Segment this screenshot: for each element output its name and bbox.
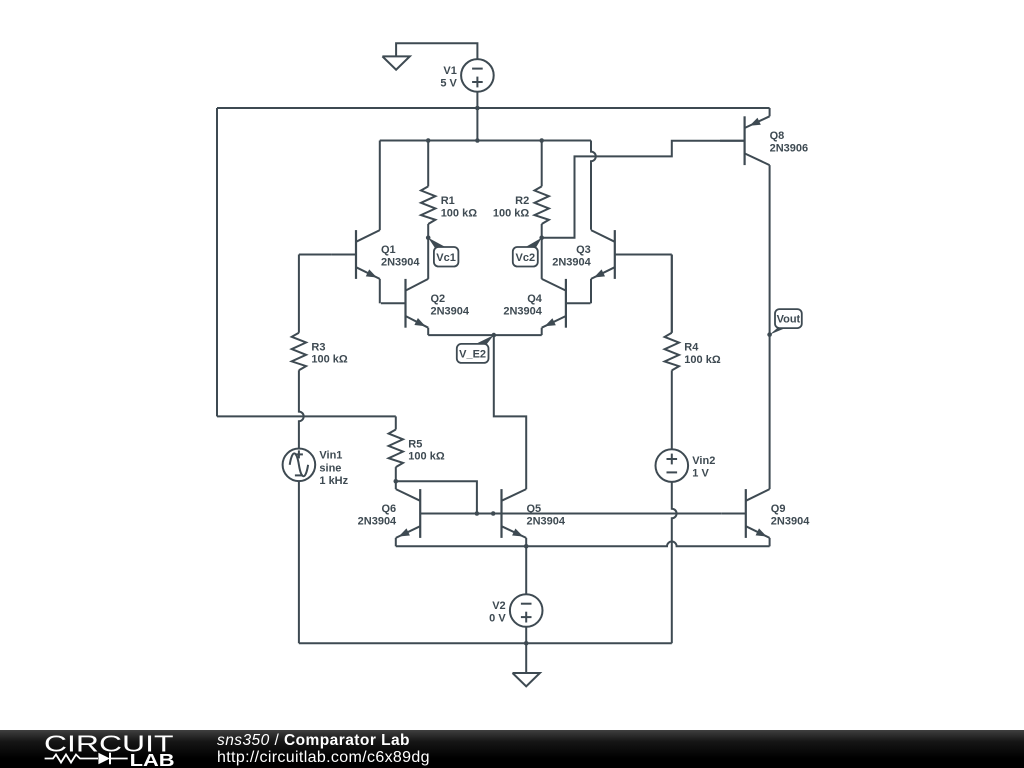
- node junction at V2 top: [524, 544, 529, 549]
- svg-text:R2: R2: [515, 195, 529, 207]
- label Q6 2N3904: [358, 503, 397, 528]
- svg-text:100 kΩ: 100 kΩ: [493, 207, 530, 219]
- node junction at Q5 base pin: [475, 511, 480, 516]
- wire (Q2/Q4 emitter rail): [428, 334, 542, 336]
- label Q3 2N3904: [552, 244, 591, 269]
- wire (R4 to Vin2): [671, 370, 673, 449]
- svg-text:R5: R5: [408, 438, 422, 450]
- node label Vout: [770, 309, 802, 335]
- svg-text:1 V: 1 V: [692, 468, 709, 480]
- svg-text:R3: R3: [311, 342, 325, 354]
- svg-text:2N3904: 2N3904: [552, 257, 591, 269]
- wire (V1 negative to ground): [396, 43, 477, 59]
- svg-text:2N3904: 2N3904: [771, 516, 810, 528]
- svg-text:Vin2: Vin2: [692, 455, 715, 467]
- svg-text:Q3: Q3: [576, 244, 591, 256]
- wire (left rail down): [216, 108, 218, 416]
- resistor R1 (100 k&#937;): [421, 141, 477, 238]
- wire (V1 plus to top rail): [476, 92, 478, 108]
- wire (base rail Q6-Q5-Q9): [420, 513, 721, 515]
- wire (bottom emitter rail, hops over Vin2 wire): [396, 542, 770, 547]
- label Q8 2N3906: [770, 130, 809, 155]
- footer title text: [217, 732, 410, 750]
- svg-text:V2: V2: [492, 600, 505, 612]
- node label V_E2: [457, 335, 494, 363]
- wire (V_E2 to Q5 collector): [494, 335, 526, 489]
- wire (Q9 emitter pin): [769, 538, 771, 546]
- wire (top rail to Q8 emitter): [769, 108, 771, 116]
- svg-text:2N3906: 2N3906: [770, 143, 809, 155]
- svg-text:Q4: Q4: [527, 293, 543, 305]
- wire (Q8 collector down to Q9 collector): [769, 165, 771, 489]
- node Vout junction: [767, 332, 772, 337]
- wire (Q4 collector to Vc2): [541, 238, 543, 279]
- svg-text:Vout: Vout: [777, 314, 801, 326]
- transistor Q4 (2N3904): [542, 279, 591, 328]
- ground (bottom): [513, 673, 540, 686]
- svg-text:Vc2: Vc2: [516, 252, 536, 264]
- svg-text:Q6: Q6: [382, 503, 397, 515]
- transistor Q9 (2N3904): [721, 489, 769, 538]
- transistor Q6 (2N3904): [396, 489, 445, 538]
- svg-text:2N3904: 2N3904: [527, 516, 566, 528]
- wire (Q2 emitter pin): [427, 328, 429, 335]
- svg-text:100 kΩ: 100 kΩ: [684, 354, 721, 366]
- wire (Vc2 to Q8 base): [542, 141, 745, 238]
- svg-text:100 kΩ: 100 kΩ: [311, 354, 348, 366]
- svg-text:Q9: Q9: [771, 503, 786, 515]
- node junction at V1 / top rail: [475, 106, 480, 111]
- svg-text:LAB: LAB: [130, 750, 175, 768]
- resistor R5 (100 k&#937;): [389, 416, 445, 481]
- node junction at R2 top: [539, 138, 544, 143]
- svg-text:0 V: 0 V: [489, 613, 506, 625]
- wire (Q3 emitter to Q4 base): [590, 279, 592, 303]
- node junction at Q5 base: [491, 511, 496, 516]
- voltage source V1 (5 V): [440, 59, 493, 92]
- node junction R5 bottom: [394, 479, 399, 484]
- node junction at R1 top: [426, 138, 431, 143]
- wire (bottom ground rail): [299, 642, 672, 644]
- svg-text:2N3904: 2N3904: [358, 516, 397, 528]
- svg-text:5 V: 5 V: [440, 77, 457, 89]
- wire (Vin1 to ground rail): [298, 481, 300, 643]
- node Vc2 junction: [539, 235, 544, 240]
- svg-text:Vc1: Vc1: [436, 252, 456, 264]
- wire (Q6 emitter pin): [395, 538, 397, 546]
- wire (top supply rail): [217, 107, 770, 109]
- svg-text:100 kΩ: 100 kΩ: [441, 207, 478, 219]
- wire (Q2 collector to Vc1): [427, 238, 429, 279]
- wire (Q6 collector to R5 junction): [395, 481, 397, 489]
- svg-text:V1: V1: [443, 65, 456, 77]
- svg-text:sine: sine: [319, 462, 341, 474]
- node junction at V2 / ground rail: [524, 641, 529, 646]
- svg-text:2N3904: 2N3904: [503, 305, 542, 317]
- svg-text:100 kΩ: 100 kΩ: [408, 451, 445, 463]
- svg-text:Vin1: Vin1: [319, 450, 342, 462]
- wire (Q3 base to R4): [615, 255, 672, 333]
- label Q1 2N3904: [381, 244, 420, 269]
- wire (emitter rail to V2): [525, 546, 527, 594]
- CircuitLab logo: [0, 730, 200, 768]
- label Q9 2N3904: [771, 503, 810, 528]
- transistor Q8 (2N3906, PNP): [720, 116, 770, 165]
- svg-text:Q8: Q8: [770, 130, 785, 142]
- voltage source Vin1 (sine 1 kHz): [283, 449, 349, 488]
- logo resistor-diode glyph: [45, 755, 98, 763]
- wire (rail to Q3 collector, hops over Q8 base wire): [591, 141, 596, 230]
- transistor Q3 (2N3904): [591, 230, 639, 279]
- label Q4 2N3904: [503, 293, 542, 318]
- resistor R3 (100 k&#937;): [292, 255, 348, 371]
- svg-text:2N3904: 2N3904: [431, 305, 470, 317]
- wire (R3 to Vin1, hops over middle wire): [299, 370, 304, 448]
- wire (collector rail V1 feed): [476, 108, 478, 141]
- node junction at V1 feed: [475, 138, 480, 143]
- wire (Q5 emitter pin): [525, 538, 527, 546]
- resistor R2 (100 k&#937;): [493, 141, 549, 238]
- node Vc1 junction: [426, 235, 431, 240]
- footer url text: [217, 749, 430, 767]
- wire (Q1 emitter to Q2 base): [379, 279, 381, 303]
- node label Vc2: [513, 238, 542, 267]
- svg-text:V_E2: V_E2: [459, 348, 486, 360]
- svg-text:R4: R4: [684, 342, 699, 354]
- resistor R4 (100 k&#937;): [665, 255, 721, 371]
- svg-text:Q1: Q1: [381, 244, 396, 256]
- wire (Vin2 to ground rail, hops over Q9 base wire): [672, 482, 677, 643]
- transistor Q5 (2N3904): [477, 489, 526, 538]
- wire (Q4 emitter pin): [541, 328, 543, 335]
- svg-text:1 kHz: 1 kHz: [319, 475, 348, 487]
- transistor Q2 (2N3904): [381, 279, 428, 328]
- wire (R5 bottom to Q5 base): [396, 481, 477, 513]
- node V_E2 junction: [492, 333, 497, 338]
- svg-text:2N3904: 2N3904: [381, 257, 420, 269]
- wire (V2 to ground rail): [525, 627, 527, 644]
- wire (rail to Q1 collector): [379, 141, 381, 231]
- ground (top, at V1): [382, 56, 409, 69]
- voltage source Vin2 (1 V): [656, 449, 716, 482]
- voltage source V2 (0 V): [489, 594, 542, 627]
- wire (ground rail to ground symbol): [525, 643, 527, 673]
- svg-text:R1: R1: [441, 195, 455, 207]
- footer bar: [0, 730, 1024, 768]
- label Q2 2N3904: [431, 293, 470, 318]
- node label Vc1: [428, 238, 458, 267]
- wire (R3 to Q1 base): [299, 254, 332, 256]
- transistor Q1 (2N3904): [331, 230, 379, 279]
- wire (left rail to R5, hops over Vin1 wire): [217, 415, 396, 417]
- svg-text:Q2: Q2: [431, 293, 446, 305]
- label Q5 2N3904: [527, 503, 566, 528]
- wire (collector rail): [380, 140, 591, 142]
